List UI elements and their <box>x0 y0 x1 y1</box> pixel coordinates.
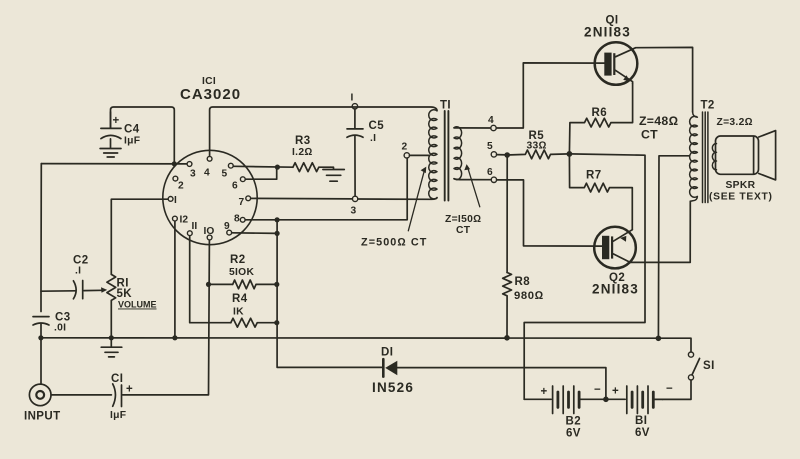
svg-text:IN526: IN526 <box>372 380 414 395</box>
resistor R4 <box>231 318 277 327</box>
resistor R5 <box>507 150 569 159</box>
svg-text:Z=3.2Ω: Z=3.2Ω <box>717 117 753 128</box>
node R4 right <box>274 320 279 325</box>
wire C4 top net <box>111 107 175 164</box>
battery B2 <box>524 398 551 400</box>
capacitor C4 <box>101 112 121 148</box>
main ground rail <box>41 338 691 352</box>
node R2 left <box>206 282 211 287</box>
svg-text:+: + <box>612 386 619 398</box>
svg-text:+: + <box>126 384 133 396</box>
node T2 CT on rail <box>656 336 662 342</box>
svg-text:IμF: IμF <box>124 136 140 147</box>
svg-text:2NII83: 2NII83 <box>584 25 631 40</box>
svg-text:R7: R7 <box>586 170 602 182</box>
svg-text:5IOK: 5IOK <box>229 267 254 278</box>
svg-text:+: + <box>541 386 548 398</box>
svg-text:33Ω: 33Ω <box>527 141 547 152</box>
wire pin7 to T1 bottom <box>251 198 437 200</box>
ground at R3 <box>323 167 344 181</box>
svg-text:VOLUME: VOLUME <box>118 300 157 310</box>
svg-text:.I: .I <box>75 266 81 277</box>
wire pin12 drop <box>174 221 176 337</box>
wire pin4 to T1 top <box>210 107 437 157</box>
node pin9 <box>275 231 280 236</box>
wire T1 sec top to terminal4 <box>454 127 491 129</box>
svg-text:I2: I2 <box>180 215 189 226</box>
svg-text:I: I <box>174 195 177 206</box>
ground under R1 <box>101 338 122 357</box>
svg-text:3: 3 <box>351 206 357 217</box>
node pin5/pin6/R3 <box>275 165 280 170</box>
svg-text:6V: 6V <box>635 427 650 439</box>
node R5/R6/R7 <box>567 151 573 157</box>
node R8 bottom <box>504 335 510 341</box>
diode D1 <box>382 359 385 376</box>
svg-text:R4: R4 <box>232 293 248 305</box>
svg-text:Z=48Ω: Z=48Ω <box>639 114 678 128</box>
svg-text:IO: IO <box>204 226 215 237</box>
svg-text:IμF: IμF <box>110 410 126 421</box>
svg-text:CT: CT <box>456 225 471 236</box>
resistor R3 <box>293 163 331 172</box>
svg-text:I: I <box>351 93 354 104</box>
svg-text:CT: CT <box>641 128 658 142</box>
svg-text:Z=I50Ω: Z=I50Ω <box>445 214 481 225</box>
svg-text:2: 2 <box>178 181 184 192</box>
wire left rail <box>40 164 42 385</box>
wire terminal4 to Q1 base <box>496 63 604 128</box>
terminal 3 circle <box>352 196 357 201</box>
speaker cone <box>759 131 776 180</box>
svg-text:C5: C5 <box>369 120 385 132</box>
wire emitters junction to battery riser <box>524 154 645 399</box>
svg-text:6: 6 <box>232 181 238 192</box>
svg-text:CA3020: CA3020 <box>180 86 241 103</box>
wire pin10 input riser <box>123 240 210 395</box>
speaker SPKR body <box>716 136 759 174</box>
wire terminal5 <box>497 154 508 156</box>
node battery midpoint <box>603 397 609 403</box>
resistor R8 <box>503 273 512 338</box>
terminal 4 circle <box>491 125 496 130</box>
svg-text:CI: CI <box>111 373 123 385</box>
transistor Q1 <box>595 42 638 85</box>
capacitor C3 <box>33 317 49 325</box>
transformer T2 primary <box>690 112 698 201</box>
wire D1 to battery mid <box>397 368 606 400</box>
svg-text:(SEE TEXT): (SEE TEXT) <box>709 192 773 203</box>
wire pin6 riser <box>245 167 277 179</box>
node pin8 <box>275 217 280 222</box>
wire jack to C1 <box>51 394 111 396</box>
svg-text:2: 2 <box>402 142 408 153</box>
resistor R7 <box>569 154 632 230</box>
svg-text:4: 4 <box>488 115 494 126</box>
wire pin9 <box>232 232 278 235</box>
wire pin11 to R4 <box>190 236 231 323</box>
wire feedback drop to D1 <box>277 220 382 368</box>
node pin12 on rail <box>172 335 177 340</box>
Q1 collector <box>615 47 692 112</box>
svg-text:R3: R3 <box>295 135 311 147</box>
transformer T1 primary <box>429 110 437 199</box>
IC1 CA3020 body <box>163 150 257 244</box>
svg-text:.I: .I <box>370 133 376 144</box>
node C4 junction <box>172 161 177 166</box>
svg-text:II: II <box>192 221 198 232</box>
svg-text:−: − <box>594 384 601 396</box>
svg-text:5K: 5K <box>117 288 133 300</box>
node R1 bottom <box>109 335 114 340</box>
svg-text:5: 5 <box>222 169 228 180</box>
wire R8 riser <box>506 155 508 273</box>
svg-text:7: 7 <box>239 197 245 208</box>
Q2 emitter <box>613 230 632 242</box>
Q1 emitter <box>615 70 632 83</box>
node R5 left <box>504 152 510 158</box>
IC pin circles <box>168 156 250 240</box>
node input/ground rail <box>38 335 43 340</box>
svg-text:B2: B2 <box>566 416 582 428</box>
svg-text:SI: SI <box>703 360 715 372</box>
transformer T1 core <box>445 111 449 201</box>
svg-text:4: 4 <box>204 168 210 179</box>
svg-text:9: 9 <box>224 221 230 232</box>
transformer T2 core <box>703 112 708 203</box>
svg-text:R8: R8 <box>515 276 531 288</box>
wire pin1 to R1 <box>111 199 168 274</box>
ground under C4 <box>100 149 121 158</box>
svg-text:8: 8 <box>234 214 240 225</box>
wiper arrow R1 <box>101 287 107 293</box>
resistor R2 <box>233 280 277 289</box>
svg-text:+: + <box>113 115 120 127</box>
svg-text:5: 5 <box>487 141 493 152</box>
svg-text:6V: 6V <box>566 428 581 440</box>
wire terminal2 tap <box>410 154 429 156</box>
resistor R6 <box>569 84 632 154</box>
wire pin8 to terminal2 <box>245 158 407 220</box>
terminal 2 circle <box>404 153 409 158</box>
terminal 6 circle <box>491 177 496 182</box>
capacitor C2 <box>73 281 82 299</box>
svg-text:980Ω: 980Ω <box>514 290 544 302</box>
svg-text:SPKR: SPKR <box>726 180 756 191</box>
capacitor C5 <box>347 129 363 137</box>
svg-text:R2: R2 <box>230 254 246 266</box>
wire terminal6 to Q2 base <box>497 180 602 246</box>
node R2 right <box>274 282 279 287</box>
svg-text:INPUT: INPUT <box>24 411 61 423</box>
annotation arrow Z=500 <box>408 171 424 231</box>
svg-text:R6: R6 <box>592 107 608 119</box>
switch S1 <box>688 352 693 357</box>
wire C2 line <box>41 289 103 292</box>
wire R2 left lead <box>209 283 233 285</box>
wire C5 hanger <box>354 109 356 196</box>
svg-text:Z=500Ω CT: Z=500Ω CT <box>361 237 428 249</box>
wire pin5 to R3 <box>233 165 293 168</box>
transformer T1 secondary <box>454 127 462 180</box>
svg-text:I.2Ω: I.2Ω <box>292 147 313 158</box>
svg-text:BI: BI <box>635 415 647 427</box>
svg-text:DI: DI <box>381 347 393 359</box>
svg-text:−: − <box>666 383 673 395</box>
svg-text:.0I: .0I <box>54 323 66 334</box>
svg-text:6: 6 <box>487 167 493 178</box>
wire T1 sec bottom to terminal6 <box>454 179 491 180</box>
wire T2 CT <box>658 156 689 338</box>
svg-text:TI: TI <box>440 100 451 112</box>
svg-text:C4: C4 <box>124 124 140 136</box>
jack INPUT inner <box>36 391 44 399</box>
resistor R1 <box>107 274 116 337</box>
battery B1 <box>606 398 625 400</box>
transistor Q2 <box>594 227 636 269</box>
capacitor C1 <box>113 384 122 407</box>
Q2 collector <box>613 201 690 262</box>
annotation arrow Z=150 <box>468 169 480 207</box>
transformer T2 secondary <box>712 144 716 170</box>
svg-text:3: 3 <box>190 169 196 180</box>
svg-text:2NII83: 2NII83 <box>592 282 639 297</box>
jack INPUT outer <box>29 384 51 406</box>
wire pin3 line <box>41 163 187 165</box>
terminal 5 circle <box>491 152 496 157</box>
terminal 1 circle <box>352 104 357 109</box>
svg-text:IK: IK <box>233 307 244 318</box>
svg-text:T2: T2 <box>701 100 715 112</box>
